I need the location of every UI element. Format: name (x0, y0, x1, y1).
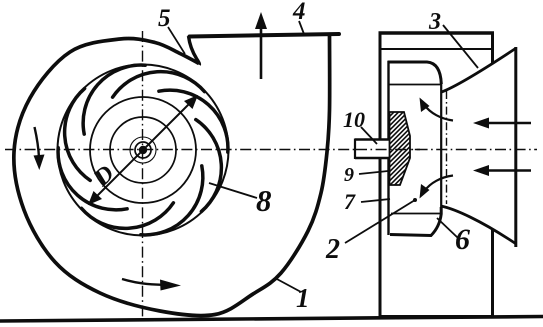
impeller blade 8 (65, 89, 91, 181)
casing bottom wall (379, 315, 495, 318)
spiral casing outline (14, 36, 330, 316)
recirculation arrow lower (420, 176, 454, 199)
casing top inner line (380, 48, 492, 50)
leader 5 (168, 27, 185, 54)
rotation arrow bottom (122, 279, 181, 291)
casing tongue notch (189, 36, 200, 65)
recirculation arrow upper (420, 98, 454, 121)
casing top wall (379, 31, 495, 34)
shroud bottom lip (390, 207, 441, 236)
flow arrow lower (473, 165, 531, 176)
blade top edge (389, 84, 441, 86)
leader 1 (275, 278, 301, 292)
impeller outer circle (58, 65, 229, 236)
blade root circle (90, 97, 196, 203)
impeller blade 3 (159, 90, 228, 152)
diameter D line (88, 95, 198, 205)
svg-text:2: 2 (325, 234, 340, 265)
svg-text:8: 8 (256, 183, 272, 218)
svg-text:9: 9 (344, 164, 354, 186)
leader 10 (361, 127, 377, 144)
impeller back plate (387, 61, 389, 235)
casing right wall upper (491, 32, 494, 65)
leader 7 (361, 199, 390, 202)
leader 3 (443, 25, 478, 68)
vertical centerline (142, 31, 144, 317)
impeller blade 1 (83, 65, 145, 134)
shroud top outline (388, 62, 442, 84)
inlet cone bottom (441, 206, 516, 244)
impeller blade 2 (113, 72, 205, 98)
impeller blade 5 (141, 166, 203, 235)
hub (hatched) (288, 105, 543, 195)
inlet cone top (442, 49, 516, 93)
impeller blade 7 (58, 148, 127, 210)
rotation arrow left (34, 127, 45, 170)
casing right wall lower (491, 229, 494, 317)
centerline across shaft and hub (356, 149, 420, 151)
svg-text:6: 6 (455, 223, 470, 256)
impeller blade 4 (196, 120, 222, 212)
flow arrow upper (473, 118, 531, 129)
outlet flow arrow (up) (255, 12, 267, 79)
leader 9 (359, 171, 388, 174)
svg-text:3: 3 (428, 9, 441, 35)
blade edge centerline (dashed) (446, 91, 448, 204)
outlet duct top line (190, 34, 340, 37)
leader 4 (299, 21, 304, 34)
leader 8 (209, 183, 257, 198)
blade bottom edge (391, 213, 441, 215)
shaft center dot (139, 146, 147, 154)
leader 2 with dot (345, 200, 415, 243)
hub circle (130, 137, 156, 163)
inner shroud circle (110, 117, 176, 183)
inlet plane (514, 47, 517, 247)
shaft ring (135, 142, 151, 158)
shaft (355, 139, 390, 160)
figure bottom border (0, 317, 543, 322)
casing left wall (379, 32, 382, 318)
impeller eye edge (440, 84, 442, 207)
svg-text:7: 7 (344, 189, 356, 214)
svg-text:1: 1 (296, 283, 310, 313)
impeller blade 6 (82, 203, 174, 229)
horizontal centerline (5, 149, 537, 151)
leader 6 (437, 218, 458, 238)
